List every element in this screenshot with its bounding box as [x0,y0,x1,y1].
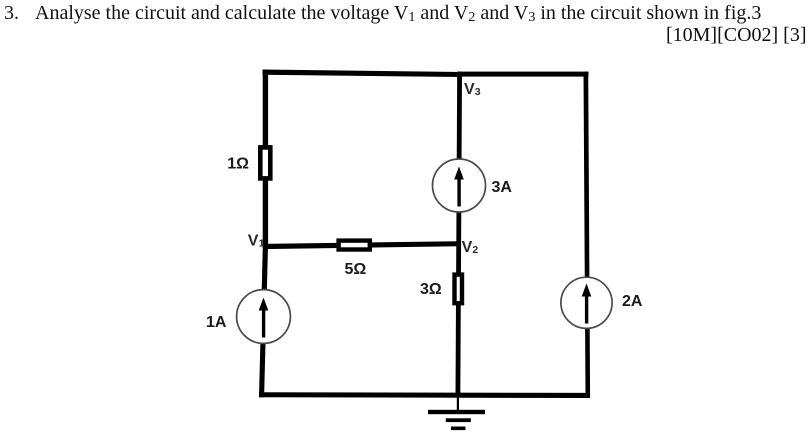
svg-text:1Ω: 1Ω [227,156,249,173]
svg-text:3: 3 [475,86,481,98]
svg-text:V: V [464,81,475,98]
svg-text:3Ω: 3Ω [420,281,442,298]
svg-text:V: V [248,233,259,250]
svg-text:2A: 2A [622,293,643,310]
svg-text:V: V [462,239,473,256]
svg-text:2: 2 [472,244,478,256]
svg-text:5Ω: 5Ω [345,261,367,278]
svg-text:1A: 1A [206,314,227,331]
svg-text:3A: 3A [492,179,513,196]
svg-text:1: 1 [259,238,265,250]
